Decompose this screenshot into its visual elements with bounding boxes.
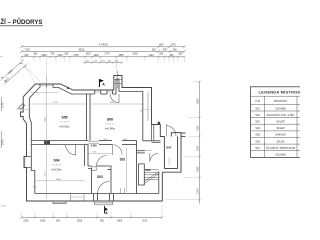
top dimension line 2 xyxy=(20,50,186,53)
svg-text:9815: 9815 xyxy=(79,48,85,52)
svg-text:4845: 4845 xyxy=(45,116,47,122)
interior walls xyxy=(31,94,152,194)
exterior outer edge xyxy=(21,76,186,202)
dark block on interior wall xyxy=(44,141,50,145)
faint interior dimension lines xyxy=(31,76,143,199)
legend table xyxy=(251,87,303,158)
svg-text:2750: 2750 xyxy=(74,55,80,57)
svg-text:S07: S07 xyxy=(166,146,172,150)
exterior inner edge xyxy=(29,79,160,194)
top wall left portion with chamfer xyxy=(23,76,164,137)
title xyxy=(0,18,43,26)
svg-text:LAŽÍ – PŮDORYS: LAŽÍ – PŮDORYS xyxy=(0,18,42,26)
svg-text:2770: 2770 xyxy=(105,53,111,55)
top dimension line 3 xyxy=(22,56,185,58)
svg-text:5745: 5745 xyxy=(53,102,59,104)
svg-text:2140: 2140 xyxy=(24,220,30,222)
small dark square at step corner xyxy=(158,122,161,125)
svg-text:2170: 2170 xyxy=(45,170,47,176)
svg-text:A: A xyxy=(102,83,105,87)
chamfer window stub xyxy=(19,104,25,110)
svg-text:3200: 3200 xyxy=(133,53,139,55)
room labels xyxy=(51,115,171,179)
svg-text:3.05 m²: 3.05 m² xyxy=(168,157,171,165)
svg-text:CHODBA: CHODBA xyxy=(275,106,286,110)
svg-text:21.46 m²: 21.46 m² xyxy=(52,164,61,167)
svg-text:2260: 2260 xyxy=(77,220,83,222)
svg-text:12.35 m²: 12.35 m² xyxy=(60,121,69,124)
svg-text:2240: 2240 xyxy=(196,188,199,194)
entrance opening xyxy=(94,194,114,202)
black dot on top wall xyxy=(67,87,69,89)
svg-text:3560: 3560 xyxy=(196,98,199,104)
svg-text:S01: S01 xyxy=(120,157,126,161)
svg-text:S02: S02 xyxy=(255,113,260,117)
svg-text:S03: S03 xyxy=(255,120,260,124)
svg-text:2000: 2000 xyxy=(196,145,199,151)
svg-text:h=2.00m: h=2.00m xyxy=(59,125,69,129)
svg-text:S06: S06 xyxy=(107,117,113,121)
svg-text:1600: 1600 xyxy=(42,55,48,57)
svg-text:LEGENDA MÍSTNOSTÍ: LEGENDA MÍSTNOSTÍ xyxy=(259,90,301,95)
svg-text:2440: 2440 xyxy=(149,55,155,57)
S07 xyxy=(162,133,181,173)
svg-text:5880: 5880 xyxy=(56,179,62,181)
svg-text:DÍLNA: DÍLNA xyxy=(277,139,285,143)
svg-text:1520: 1520 xyxy=(58,55,64,57)
svg-text:SKLEP: SKLEP xyxy=(276,126,285,130)
svg-text:2170: 2170 xyxy=(2,102,5,108)
svg-text:1415: 1415 xyxy=(86,53,92,55)
svg-text:S01: S01 xyxy=(255,106,260,110)
svg-text:7105: 7105 xyxy=(25,50,31,52)
fourth dim row xyxy=(84,61,124,63)
svg-text:S06: S06 xyxy=(255,139,260,143)
svg-text:MÍSTNOST: MÍSTNOST xyxy=(274,99,288,103)
stair treads xyxy=(144,170,160,184)
svg-text:4850: 4850 xyxy=(110,102,116,104)
bottom dimension line xyxy=(20,216,163,218)
svg-text:1380: 1380 xyxy=(40,220,46,222)
left wall window bump edges xyxy=(27,157,31,168)
svg-text:17430: 17430 xyxy=(99,42,108,46)
svg-text:1850: 1850 xyxy=(119,55,125,57)
right vertical dimension line xyxy=(198,80,200,203)
svg-text:h=2.20m: h=2.20m xyxy=(51,167,61,171)
0.650 label xyxy=(89,141,100,144)
bay detail top xyxy=(114,80,122,84)
svg-text:0.150: 0.150 xyxy=(1,206,7,208)
svg-text:1510: 1510 xyxy=(142,220,148,222)
top dimension line 1 xyxy=(20,45,186,48)
svg-text:S03: S03 xyxy=(97,175,103,179)
svg-text:1475: 1475 xyxy=(171,45,177,47)
left small dims xyxy=(0,97,2,148)
svg-text:S07: S07 xyxy=(255,146,260,150)
section marker bottom xyxy=(105,206,109,215)
svg-text:1600: 1600 xyxy=(94,55,100,57)
svg-text:1930: 1930 xyxy=(196,125,199,131)
svg-text:S04: S04 xyxy=(53,158,59,162)
svg-text:1800: 1800 xyxy=(117,220,123,222)
corridor bottom jambs xyxy=(121,188,125,194)
svg-text:0.650: 0.650 xyxy=(91,144,98,147)
svg-text:UHELNA: UHELNA xyxy=(275,133,286,137)
svg-text:S05: S05 xyxy=(61,115,67,119)
doors xyxy=(66,94,177,194)
svg-text:h=2.00m: h=2.00m xyxy=(105,127,115,131)
lower right wall xyxy=(21,97,163,201)
svg-text:2440: 2440 xyxy=(2,139,5,145)
wall thickness mini dims xyxy=(17,109,152,111)
svg-text:S02: S02 xyxy=(145,168,151,172)
svg-text:CELKEM: CELKEM xyxy=(275,153,286,157)
svg-text:12.16 m²: 12.16 m² xyxy=(106,123,115,126)
svg-text:S04: S04 xyxy=(255,126,260,130)
section marker top xyxy=(100,79,106,87)
window glazing lines xyxy=(25,86,113,167)
bottom wall window bump xyxy=(53,201,66,204)
svg-text:SKLEP: SKLEP xyxy=(276,120,285,124)
diagonal dims top-left xyxy=(1,60,28,85)
svg-text:SCHODY DO 1.NP: SCHODY DO 1.NP xyxy=(267,113,295,117)
svg-text:2080: 2080 xyxy=(196,166,199,172)
svg-text:S05: S05 xyxy=(255,133,260,137)
